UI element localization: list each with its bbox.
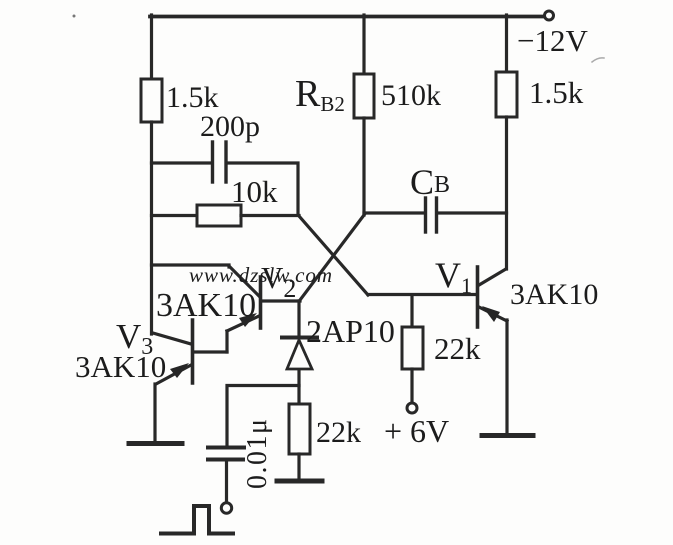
smudge [592, 58, 604, 62]
wire left rail mid [150, 122, 153, 334]
wire diode to 22k [297, 370, 300, 404]
capacitor 200p [213, 142, 227, 182]
svg-text:0.01μ: 0.01μ [242, 417, 273, 489]
svg-text:2AP10: 2AP10 [306, 313, 395, 349]
wire 22k branch top [410, 295, 413, 327]
terminal -12V [545, 11, 554, 20]
svg-text:1.5k: 1.5k [529, 75, 584, 110]
transistor V2 [227, 277, 300, 331]
svg-text:10k: 10k [231, 174, 278, 209]
wire V2 collector [152, 265, 230, 267]
svg-text:22k: 22k [434, 331, 481, 366]
wire CB left [364, 211, 424, 214]
ground V1 [482, 433, 533, 438]
wire 10k left [152, 214, 198, 217]
wire 200p right [228, 163, 299, 214]
svg-text:200p: 200p [200, 110, 260, 143]
wire V2 collector diagonal [229, 266, 259, 296]
wire 200p left [152, 161, 212, 164]
terminal +6V [407, 403, 417, 413]
wire 510k top [362, 15, 365, 74]
svg-text:+ 6V: + 6V [384, 413, 449, 449]
wire branch to 0.01u [227, 386, 299, 446]
svg-text:−12V: −12V [517, 23, 588, 58]
svg-text:V1: V1 [435, 255, 472, 298]
ground 22k [277, 479, 322, 484]
wire 10k right [241, 214, 299, 217]
wire V2 base to diode [297, 301, 300, 336]
transistor V1 [478, 267, 508, 327]
diode 2AP10 [282, 338, 317, 370]
wire V1 base [368, 293, 476, 296]
wire CB right [438, 211, 507, 214]
svg-text:RB2: RB2 [295, 73, 345, 116]
wire V1 emitter down [505, 320, 508, 434]
resistor 1.5k right [496, 72, 517, 117]
wire 22k branch bottom [410, 369, 413, 403]
resistor RB2 510k [354, 74, 374, 118]
terminal trigger input [221, 503, 231, 513]
wire left rail upper [150, 15, 153, 79]
resistor 10k [197, 205, 241, 226]
wire cross-couple B (510k node to V2 base) [300, 215, 364, 300]
capacitor 0.01u [208, 448, 244, 460]
svg-text:510k: 510k [381, 79, 441, 112]
wire 0.01u bottom [225, 461, 228, 502]
resistor 22k right [402, 327, 423, 369]
svg-text:3AK10: 3AK10 [156, 287, 256, 324]
svg-text:3AK10: 3AK10 [75, 349, 166, 384]
wire 510k bottom [362, 118, 365, 215]
pulse symbol [161, 506, 233, 534]
svg-text:22k: 22k [316, 416, 361, 449]
resistor R 1.5k left [141, 79, 162, 122]
wire cross-couple A (10k node to V1 base) [299, 216, 368, 295]
ground V3 [129, 441, 182, 446]
svg-text:3AK10: 3AK10 [510, 278, 598, 311]
wire top rail [150, 15, 545, 19]
capacitor CB [426, 198, 437, 232]
wire V3 emitter down [153, 384, 156, 441]
svg-text:CB: CB [410, 162, 450, 202]
wire right rail upper [505, 15, 508, 72]
resistor 22k lower [289, 404, 310, 454]
wire right rail lower [505, 117, 508, 269]
transistor V3 [153, 320, 227, 384]
svg-text:www.dzslw.com: www.dzslw.com [189, 263, 333, 287]
wire 22k lower bottom [297, 454, 300, 479]
stray dot [73, 15, 76, 18]
